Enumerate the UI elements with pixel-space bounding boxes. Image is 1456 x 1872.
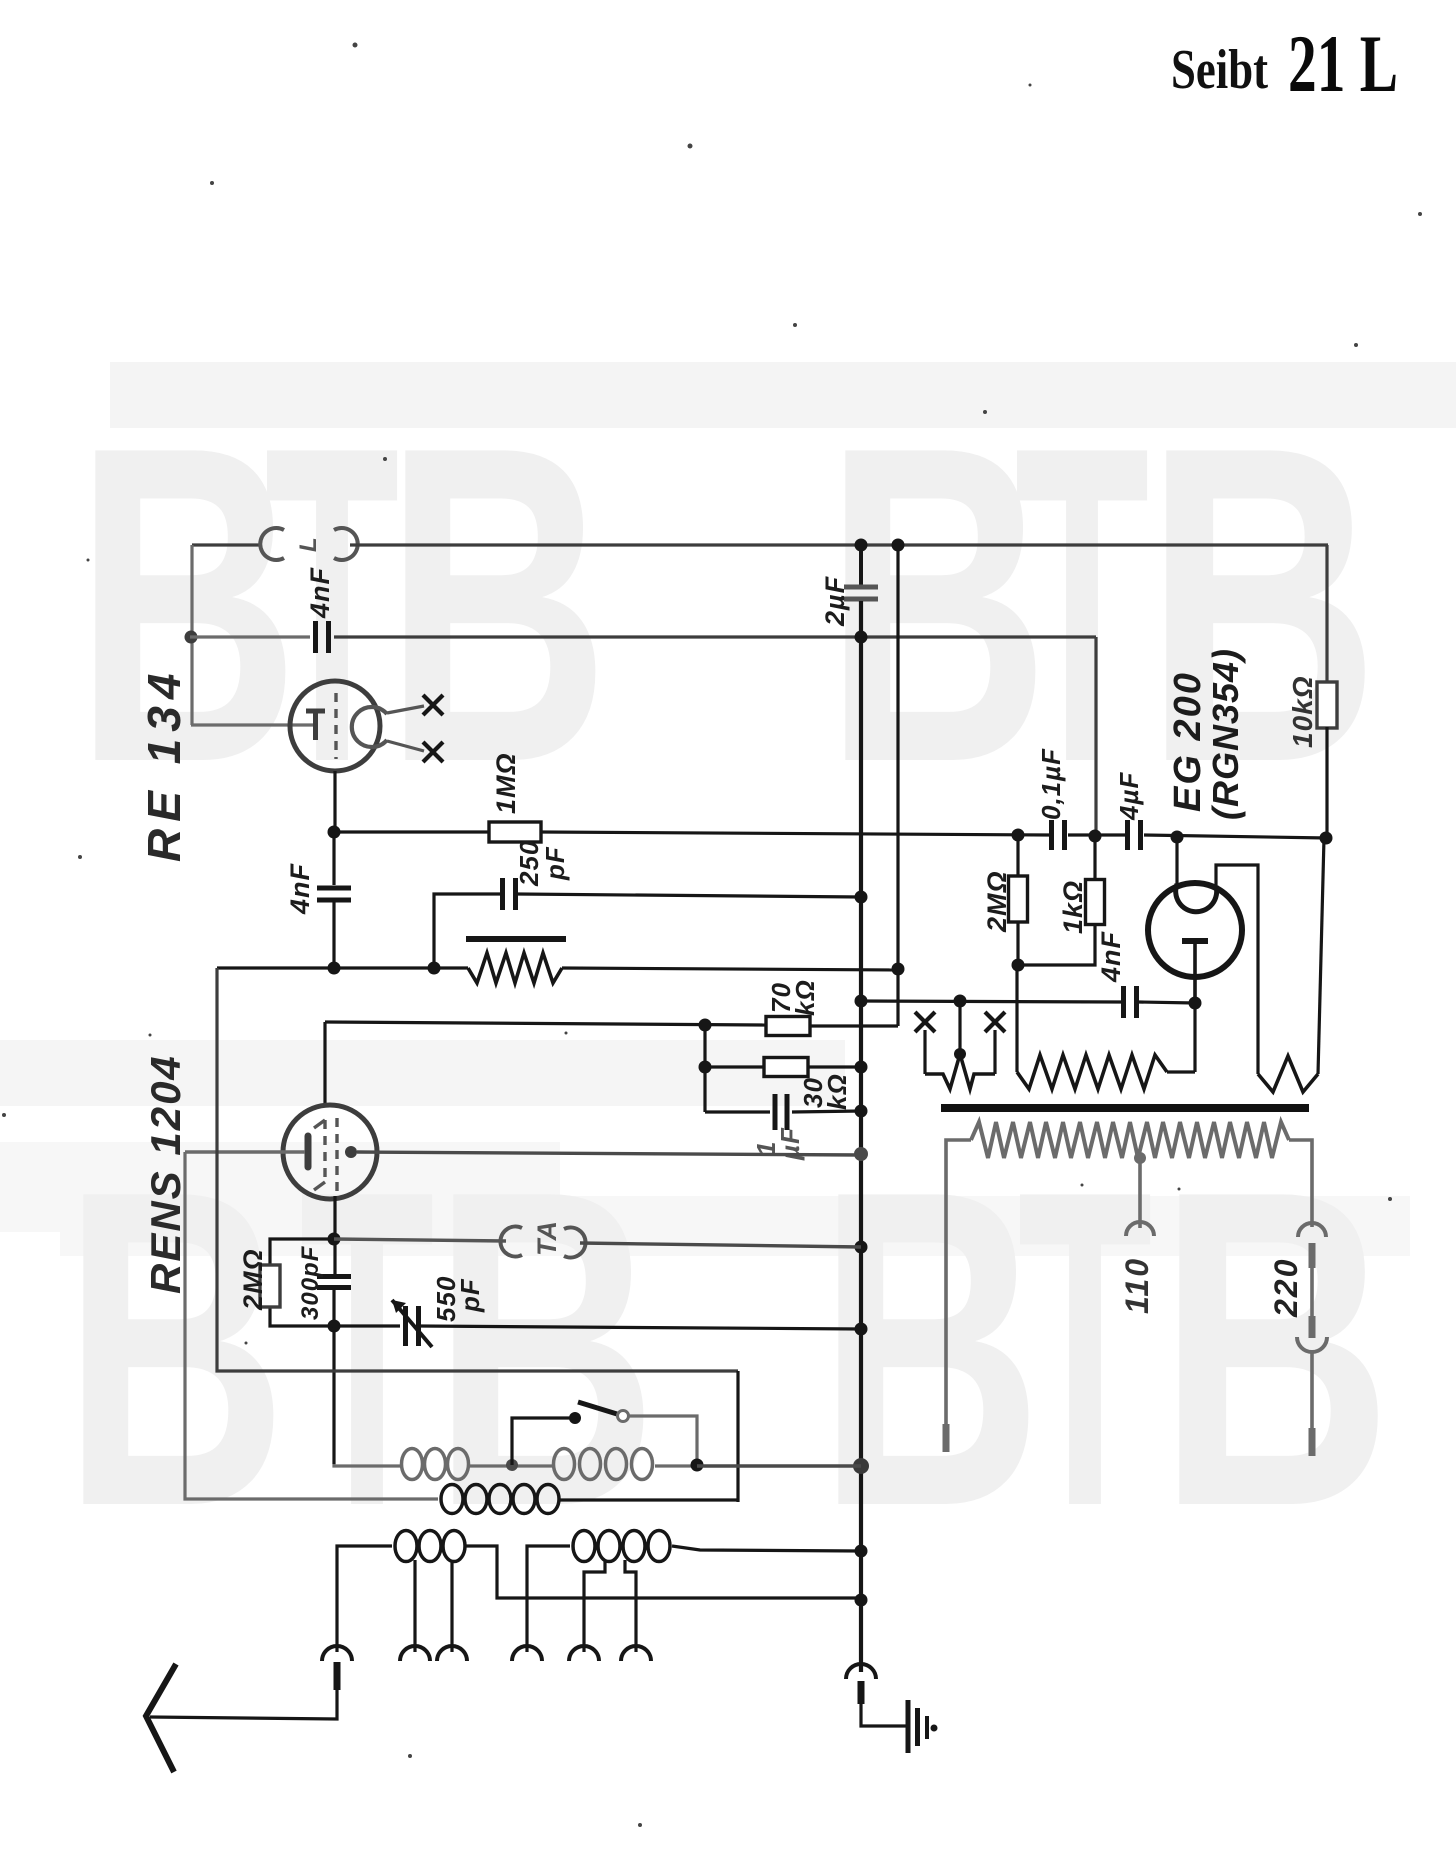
terminal x lower: [423, 742, 443, 762]
resistor 2MΩ: [260, 1265, 280, 1307]
connector TA left arc: [500, 1227, 522, 1257]
connector L right arc: [334, 528, 358, 560]
wire small zigzag riser: [1318, 838, 1324, 1074]
tube RE134 envelope: [290, 681, 380, 771]
svg-text:T: T: [300, 1098, 435, 1600]
junction dot (861,1247): [855, 1241, 868, 1254]
resistor 30kΩ: [764, 1058, 808, 1077]
wire dropper left lead: [946, 1140, 971, 1424]
wire left column x=191: [190, 545, 193, 725]
socket tap a: [400, 1646, 430, 1661]
mains plug pin left: [943, 1424, 950, 1452]
wire jog x=1096: [1094, 637, 1097, 836]
junction dot (1018,965): [1012, 959, 1025, 972]
svg-text:1MΩ: 1MΩ: [491, 752, 521, 814]
potentiometer zigzag: [468, 953, 562, 983]
capacitor 550pF variable: [403, 1306, 408, 1346]
wire H4 right segment: [562, 968, 898, 970]
capacitor 4nF series in H2: [313, 621, 318, 653]
wire x=185 drop: [185, 1152, 438, 1499]
junction dot (1195,1003): [1189, 997, 1202, 1010]
tube RENS1204 grid2 dashed: [335, 1118, 338, 1192]
wire TA line right: [580, 1243, 861, 1247]
svg-text:2µF: 2µF: [820, 575, 850, 627]
wire RE134 filament lead lower: [387, 741, 424, 751]
capacitor 300pF: [317, 1274, 351, 1279]
wire H4 screen line: [217, 966, 468, 969]
rheostat W zigzag: [925, 1054, 995, 1089]
wire RE134 filament lead upper: [387, 706, 424, 713]
wire RENS left lead: [185, 1150, 305, 1153]
junction dot (898,969): [892, 963, 905, 976]
wire coil4 tap1: [413, 1560, 416, 1652]
wire x=333 to junction: [332, 900, 335, 968]
wire RENS anode riser: [323, 1022, 326, 1105]
wire coil5 tap2: [625, 1560, 636, 1652]
capacitor 4nF right: [1121, 986, 1126, 1018]
connector TA right arc: [564, 1228, 586, 1258]
junction dot (512,1465): [506, 1459, 518, 1471]
wire coil2 to junction: [655, 1464, 697, 1467]
junction dot (861,637): [855, 631, 868, 644]
wire H3 segment: [1068, 833, 1125, 836]
wire top line H1: [350, 543, 1328, 546]
svg-text:(RGN354): (RGN354): [1205, 648, 1246, 820]
wire 550pF to bus: [419, 1326, 861, 1329]
wire main bus: [859, 601, 863, 1672]
wire coil4 tap2: [450, 1560, 453, 1652]
svg-text:220: 220: [1268, 1258, 1304, 1318]
wire H3 continued: [541, 832, 1049, 835]
switch pivot circle: [618, 1411, 629, 1422]
resistor 1kΩ leads: [1093, 836, 1096, 880]
separator bar: [941, 1104, 1309, 1112]
wire 250pF to bus: [517, 894, 861, 897]
svg-text:4µF: 4µF: [1114, 772, 1144, 821]
resistor 1kΩ: [1086, 880, 1105, 925]
resistor 2MΩ right leads: [1016, 835, 1019, 876]
junction dot (898,545): [892, 539, 905, 552]
junction dot (333,968): [328, 962, 341, 975]
tube EG200 filament arc: [1176, 884, 1217, 912]
resistor small zigzag: [1258, 1056, 1318, 1092]
svg-text:L: L: [295, 536, 322, 552]
svg-text:RENS 1204: RENS 1204: [142, 1054, 189, 1294]
inductor coil4: [395, 1531, 417, 1562]
connector L left arc: [260, 528, 284, 560]
terminal x right: [985, 1012, 1005, 1032]
junction dot (861,545): [855, 539, 868, 552]
wire 550pF line: [334, 1324, 400, 1327]
junction dot (334,1239): [328, 1233, 341, 1246]
tube EG200 envelope: [1148, 883, 1242, 977]
svg-text:2MΩ: 2MΩ: [982, 870, 1012, 933]
wire RENS cathode lead right: [357, 1152, 861, 1155]
wire 220 to pin: [1310, 1352, 1314, 1428]
tube RENS1204 grid1 dashed: [323, 1120, 326, 1182]
svg-text:4nF: 4nF: [305, 566, 335, 619]
wire 1µF line: [705, 1110, 770, 1113]
capacitor 4µF: [1125, 820, 1130, 850]
svg-text:4nF: 4nF: [1096, 930, 1126, 983]
svg-text:B: B: [433, 1098, 658, 1600]
wire screen feed vertical x=898: [896, 545, 899, 1026]
resistor 2MΩ leads: [270, 1239, 334, 1267]
socket tap d: [569, 1646, 599, 1661]
wire RENS1204 anode line: [325, 1022, 766, 1025]
svg-text:pF: pF: [540, 846, 570, 881]
tube EG200 cathode bar: [1182, 938, 1208, 944]
junction dot dropper tap: [1134, 1152, 1146, 1164]
inductor coil3 antenna coupling: [441, 1485, 463, 1514]
socket tap b: [437, 1646, 467, 1661]
wire coil1-coil2 link: [470, 1464, 553, 1467]
rheostat wiper: [958, 1001, 961, 1054]
inductor coil5: [573, 1531, 595, 1562]
wire H3 right segment: [1144, 835, 1327, 838]
potentiometer bar: [466, 936, 566, 942]
wire 250pF branch riser: [434, 894, 501, 968]
wire dropper right lead: [1289, 1140, 1312, 1227]
tube RE134 grid plate T: [306, 709, 325, 714]
wire coil5 tap1: [584, 1560, 605, 1652]
junction dot (705,1067): [699, 1061, 712, 1074]
socket tap e: [621, 1646, 651, 1661]
wire 30k line: [705, 1065, 764, 1068]
wire 110 tap: [1138, 1158, 1142, 1228]
terminal x left: [915, 1012, 935, 1032]
svg-text:RE 134: RE 134: [138, 667, 190, 862]
socket chassis: [846, 1664, 876, 1679]
tube RENS1204 cathode dot: [345, 1146, 357, 1158]
wire to ground: [861, 1704, 906, 1726]
junction dot (1018,835): [1012, 829, 1025, 842]
svg-text:TA: TA: [532, 1220, 562, 1256]
tube RENS1204 envelope: [283, 1105, 377, 1199]
svg-text:kΩ: kΩ: [790, 979, 820, 1016]
svg-text:kΩ: kΩ: [822, 1073, 852, 1110]
resistor heater zigzag: [1017, 1055, 1167, 1089]
resistor 1MΩ: [489, 822, 541, 842]
wire coil3 right lead: [560, 1498, 738, 1501]
wire coil4 left lead: [337, 1546, 392, 1652]
junction dot (960,1001): [954, 995, 967, 1008]
wire 1µF to bus: [792, 1111, 861, 1112]
junction dot (1095,836): [1089, 830, 1102, 843]
junction dot (861,1067): [855, 1061, 868, 1074]
wire grid to 550 line: [332, 1287, 335, 1326]
wire coil5 left lead: [527, 1546, 570, 1652]
antenna symbol: [146, 1664, 176, 1772]
wire RENS grid lead bottom: [333, 1196, 336, 1277]
junction dot (697,1465): [691, 1459, 704, 1472]
wire coil row to bus: [697, 1464, 861, 1467]
wire grid line down x=334: [332, 1326, 335, 1464]
junction dot (861,1466): [853, 1458, 869, 1474]
svg-text:10kΩ: 10kΩ: [1287, 675, 1318, 748]
wire coil1 lead: [334, 1464, 400, 1466]
svg-text:1kΩ: 1kΩ: [1058, 880, 1088, 934]
socket tap c: [512, 1646, 542, 1661]
wire x=738 drop: [736, 1371, 739, 1502]
switch contact dot: [569, 1412, 581, 1424]
tube RE134 filament loop: [352, 707, 387, 747]
junction dot (861,1154): [854, 1147, 868, 1161]
wire x=333 from H3 junction down: [332, 832, 335, 885]
wire x=217 drop: [217, 968, 738, 1371]
watermark band top: [110, 362, 1456, 428]
junction dot (861,1001): [855, 995, 868, 1008]
mains dropper resistor: [971, 1122, 1289, 1158]
junction dot (191,637): [185, 631, 198, 644]
junction dot (434,968): [428, 962, 441, 975]
capacitor 4nF vertical: [317, 886, 351, 891]
wire H2 line right: [334, 635, 1096, 638]
socket antenna: [322, 1646, 352, 1661]
wire x=705 drop: [703, 1025, 706, 1112]
capacitor 1µF: [773, 1094, 778, 1130]
wire H3 anode line: [334, 830, 489, 833]
wire TA line: [334, 1239, 506, 1241]
wire 220 link: [1310, 1268, 1314, 1316]
wire 30k to bus: [808, 1065, 861, 1068]
terminal x upper: [423, 695, 443, 715]
wire 4nF line y=1001: [861, 1001, 1121, 1002]
svg-text:B: B: [1158, 1098, 1393, 1600]
wire plate column x=1195: [1193, 1003, 1196, 1072]
wire switch branch: [512, 1418, 571, 1465]
svg-text:4nF: 4nF: [285, 862, 315, 915]
junction dot (1177,837): [1171, 831, 1184, 844]
capacitor 2µF: [844, 585, 878, 590]
svg-text:21 L: 21 L: [1288, 18, 1398, 109]
socket 220 upper: [1298, 1223, 1326, 1237]
svg-text:T: T: [1018, 1098, 1153, 1600]
junction dot (861,1551): [855, 1545, 868, 1558]
antenna plug pin: [334, 1662, 341, 1690]
resistor 70kΩ: [766, 1017, 810, 1036]
inductor coil2: [554, 1449, 575, 1480]
svg-text:0,1µF: 0,1µF: [1036, 748, 1066, 820]
mains plug pin right: [1309, 1428, 1316, 1456]
wire H2 line left: [190, 635, 310, 638]
junction dot (1326,838): [1320, 832, 1333, 845]
wire right column x=1327 lower: [1325, 727, 1328, 839]
wire coil5 right lead: [672, 1546, 861, 1551]
svg-text:pF: pF: [455, 1278, 485, 1313]
junction dot (334,832): [328, 826, 341, 839]
tube RE134 grid dashed: [334, 693, 337, 759]
junction dot (861,1329): [855, 1323, 868, 1336]
resistor 10kΩ: [1317, 682, 1337, 728]
wire 70k link: [810, 1024, 898, 1027]
tube EG200 cathode stem: [1193, 941, 1197, 1003]
wire antenna lead: [150, 1690, 337, 1719]
wire coil4 right lead: [466, 1546, 861, 1598]
wire filament left lead: [1175, 837, 1178, 884]
wire filament right lead: [1216, 865, 1258, 1074]
junction dot (861,1600): [855, 1594, 868, 1607]
chassis plug pin: [858, 1681, 865, 1704]
connector 220 pin lower: [1309, 1316, 1316, 1338]
svg-text:B: B: [818, 1098, 1043, 1600]
junction dot (705,1025): [699, 1019, 712, 1032]
resistor 2MΩ right: [1009, 876, 1028, 922]
wire top line H1 left segment: [192, 543, 262, 546]
switch arm: [578, 1402, 617, 1414]
rheostat terminal stems: [923, 1030, 926, 1074]
svg-text:EG 200: EG 200: [1167, 671, 1209, 812]
tube RENS1204 anode bar: [305, 1136, 312, 1167]
junction dot wiper: [954, 1048, 966, 1060]
wire main bus top: [859, 545, 863, 585]
wire 4nF to plate: [1139, 1002, 1195, 1003]
capacitor 250pF: [500, 878, 505, 910]
ground symbol: [906, 1700, 911, 1753]
svg-text:Seibt: Seibt: [1171, 39, 1268, 101]
svg-text:2MΩ: 2MΩ: [238, 1248, 268, 1311]
socket 220 lower cup: [1297, 1337, 1327, 1352]
capacitor 0,1µF: [1049, 820, 1054, 850]
wire right column x=1327 upper: [1325, 545, 1328, 683]
junction dot (334,1326): [328, 1320, 341, 1333]
inductor coil1: [402, 1449, 423, 1480]
wire switch to right: [629, 1416, 697, 1465]
svg-text:110: 110: [1119, 1257, 1155, 1314]
connector 220 pin upper: [1309, 1243, 1316, 1268]
wire heater drop x=1017: [1015, 965, 1018, 1072]
wire heater to plate column: [1167, 1070, 1195, 1073]
wire RE134 anode lead: [333, 771, 336, 832]
socket 110: [1126, 1222, 1154, 1236]
wire RE134 grid lead: [191, 723, 313, 726]
junction dot (861,1111): [855, 1105, 868, 1118]
junction dot (861,897): [855, 891, 868, 904]
svg-text:300pF: 300pF: [297, 1245, 324, 1320]
